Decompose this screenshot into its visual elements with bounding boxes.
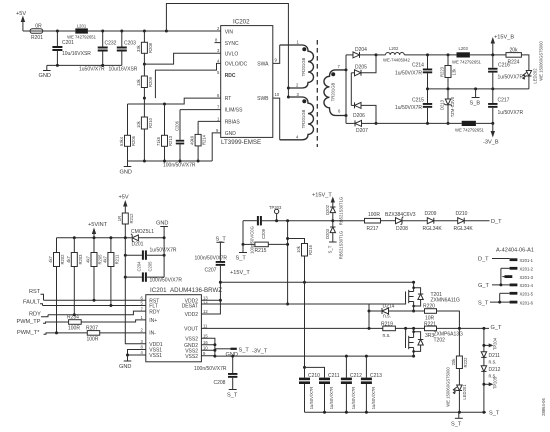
node S_T c207 (216, 237, 227, 262)
svg-text:100R: 100R (87, 337, 99, 343)
resistor R223 (440, 55, 457, 89)
svg-text:C213: C213 (370, 373, 382, 379)
svg-text:RBIAS: RBIAS (225, 120, 241, 126)
svg-text:A-42404-06-A1: A-42404-06-A1 (496, 248, 534, 254)
svg-text:D201: D201 (132, 242, 144, 248)
svg-text:LT3999-EMSE: LT3999-EMSE (221, 139, 261, 146)
svg-text:TP205: TP205 (492, 376, 497, 389)
svg-text:C206: C206 (174, 120, 179, 131)
svg-text:C203: C203 (124, 41, 136, 47)
node +15V_T top (312, 193, 335, 207)
svg-text:100n/50V/X7R: 100n/50V/X7R (194, 366, 227, 372)
wire desat row (201, 302, 405, 304)
svg-text:RST: RST (29, 289, 41, 295)
inductor L202 (376, 46, 428, 63)
transistor T201 (406, 282, 460, 311)
node RST (29, 289, 44, 300)
pin X201-1 (510, 258, 518, 261)
pin SYNC stub (215, 42, 221, 44)
svg-text:C208: C208 (214, 380, 226, 386)
transformer TR201 primary A (280, 40, 314, 89)
svg-text:VOUT: VOUT (184, 327, 198, 333)
svg-text:1u/50VX7R: 1u/50VX7R (498, 75, 524, 81)
diode D206 (351, 102, 377, 125)
wire IC202 GND pin (212, 133, 221, 161)
svg-text:TP204: TP204 (492, 337, 497, 350)
svg-text:n.s.: n.s. (383, 314, 391, 320)
ground S_T stub (451, 412, 463, 427)
wire top rail to L203 (426, 53, 457, 56)
svg-text:20k: 20k (451, 358, 456, 366)
svg-text:1u/50VX7R: 1u/50VX7R (498, 110, 524, 116)
resistor R208 (136, 30, 153, 65)
resistor R217 (333, 212, 381, 232)
wire center tap (287, 87, 290, 99)
svg-text:R220: R220 (423, 304, 435, 310)
svg-text:FAULT: FAULT (23, 300, 41, 306)
svg-text:X201-3: X201-3 (520, 275, 534, 280)
diode D201 zener (131, 229, 164, 248)
node +15V_B (491, 35, 515, 57)
svg-text:WE 742792651: WE 742792651 (67, 34, 97, 39)
svg-text:VSS2: VSS2 (185, 336, 198, 342)
diode D214 (369, 303, 395, 319)
svg-text:WE 150060GS75000: WE 150060GS75000 (445, 367, 450, 407)
wire secondary bottom terminal (345, 114, 348, 117)
svg-text:D209: D209 (425, 211, 437, 217)
resistor R207 (86, 326, 146, 343)
connector A-42404-06-A1 (478, 248, 534, 307)
svg-text:63k4: 63k4 (119, 136, 124, 146)
svg-text:SWA: SWA (257, 62, 269, 68)
wire VSS2 pins join (201, 338, 216, 357)
test point TP205 (484, 376, 497, 389)
op-amp IC201 (141, 287, 223, 362)
diode D203 (325, 221, 344, 260)
inductor L203 (452, 46, 506, 65)
svg-text:D_T: D_T (491, 219, 502, 225)
op-amp IC202 (215, 19, 280, 147)
diode D212 (481, 366, 500, 413)
svg-text:4k7: 4k7 (86, 255, 91, 262)
svg-text:1u/50V/X7R: 1u/50V/X7R (371, 387, 376, 410)
svg-text:S_T: S_T (227, 393, 238, 399)
svg-text:S_T: S_T (236, 256, 247, 262)
resistor R219 (381, 322, 425, 340)
svg-text:X201-4: X201-4 (520, 283, 534, 288)
capacitor C214 (395, 55, 432, 89)
svg-text:100R: 100R (368, 212, 380, 218)
svg-text:D204: D204 (355, 47, 367, 53)
wire VOUT G row (201, 327, 382, 330)
svg-text:C201: C201 (62, 40, 74, 46)
resistor R216 (288, 239, 313, 283)
pin X201-2 (501, 267, 510, 269)
wire vdd2 rail (219, 281, 415, 284)
svg-text:LED201: LED201 (462, 384, 467, 400)
svg-text:RT: RT (225, 96, 232, 102)
svg-text:10u/16VXSR: 10u/16VXSR (62, 51, 91, 57)
svg-text:R234: R234 (67, 315, 79, 321)
capacitor C205 (124, 261, 183, 283)
diode D207 (346, 120, 376, 134)
svg-text:D213: D213 (440, 99, 445, 110)
diode D208 zener (381, 212, 416, 232)
svg-text:+15V_T: +15V_T (230, 270, 250, 276)
svg-text:VDD2: VDD2 (185, 312, 199, 318)
svg-text:CMOZ5L1: CMOZ5L1 (131, 229, 154, 235)
svg-text:15: 15 (203, 333, 208, 338)
node PWM_T (17, 319, 69, 325)
svg-text:C217: C217 (498, 98, 510, 104)
node +5V (16, 11, 26, 31)
ground GND ic201-top (156, 221, 168, 240)
svg-text:10k: 10k (136, 120, 141, 128)
resistor R215 (243, 242, 288, 254)
svg-text:+5VINT: +5VINT (88, 222, 108, 228)
svg-text:1u50V/X7R: 1u50V/X7R (79, 67, 105, 73)
wire RST row (44, 299, 146, 302)
svg-text:S_T: S_T (328, 245, 333, 253)
svg-text:RGL34K: RGL34K (423, 226, 443, 232)
svg-text:C216: C216 (498, 63, 510, 69)
wire ILIM row (180, 109, 221, 111)
capacitor C215 (395, 89, 432, 124)
capacitor C204 (124, 248, 177, 272)
svg-text:C210: C210 (308, 373, 320, 379)
svg-text:GND: GND (225, 131, 237, 137)
svg-text:RDC: RDC (225, 73, 236, 79)
svg-text:100n/50V/X7R: 100n/50V/X7R (195, 256, 228, 262)
svg-text:D208: D208 (396, 226, 408, 232)
svg-text:13k: 13k (452, 68, 457, 76)
diode D204 (346, 47, 376, 58)
wire +5VINT rail (57, 236, 132, 239)
svg-text:C204: C204 (136, 261, 141, 272)
svg-text:D205: D205 (355, 65, 367, 71)
svg-text:D214: D214 (383, 303, 395, 309)
svg-text:D207: D207 (356, 128, 368, 134)
svg-text:SYNC: SYNC (225, 41, 239, 47)
wire vdd2 pins (201, 299, 222, 314)
svg-text:D212: D212 (489, 367, 501, 373)
svg-text:RDY: RDY (29, 312, 41, 318)
svg-text:10u/16VXSR: 10u/16VXSR (109, 67, 138, 73)
svg-text:R215: R215 (255, 248, 267, 254)
svg-text:BZX384C6V3: BZX384C6V3 (385, 212, 416, 218)
svg-text:D211: D211 (489, 353, 501, 359)
wire RT row (128, 98, 221, 104)
svg-text:R208: R208 (148, 42, 153, 53)
node -3V_B (483, 123, 499, 145)
svg-text:L201: L201 (77, 23, 87, 28)
resistor R202 (48, 238, 65, 333)
svg-text:S_T: S_T (216, 237, 227, 243)
svg-text:R223: R223 (440, 66, 445, 77)
wire mid rail S_B (426, 87, 529, 90)
svg-text:33k: 33k (136, 44, 141, 52)
svg-text:ILIM/SS: ILIM/SS (225, 108, 243, 114)
node +5VINT (88, 222, 108, 238)
LED LED201 (445, 367, 467, 413)
diode D209 (402, 211, 458, 232)
wire S_T bottom rail (305, 411, 500, 417)
test point TP204 (484, 337, 497, 350)
resistor R201 (30, 24, 43, 42)
inductor L201 (67, 23, 97, 39)
capacitor C201 (52, 30, 91, 66)
svg-text:28864-06: 28864-06 (541, 397, 546, 415)
svg-text:R202: R202 (60, 254, 65, 265)
svg-text:R213: R213 (168, 135, 173, 146)
svg-text:GND: GND (120, 170, 132, 176)
capacitor C209 (243, 216, 333, 254)
svg-text:GND: GND (39, 73, 51, 79)
wire UVLO tap (143, 53, 221, 65)
svg-text:+5V: +5V (119, 195, 129, 201)
svg-text:R201: R201 (31, 35, 43, 41)
svg-text:G_T: G_T (478, 283, 489, 289)
wire feedback to center tap (165, 4, 289, 89)
resistor R234 (67, 315, 146, 332)
wire secondary top terminal (345, 68, 348, 71)
pin X201-5 (500, 292, 510, 294)
svg-text:RB521S30T1G: RB521S30T1G (338, 231, 343, 259)
node S_B (470, 89, 481, 107)
svg-text:0R: 0R (35, 24, 42, 30)
svg-text:1u/50V/X7R: 1u/50V/X7R (329, 387, 334, 410)
wire desat branch vertical (286, 219, 289, 305)
resistor R220 (389, 304, 460, 329)
svg-text:TR201GB: TR201GB (331, 82, 336, 101)
svg-text:X201-5: X201-5 (520, 292, 534, 297)
svg-text:R210: R210 (148, 117, 153, 128)
svg-text:L202: L202 (389, 46, 399, 51)
svg-text:-3V_T: -3V_T (252, 349, 268, 355)
node +5V mid (119, 195, 129, 214)
svg-text:S_T: S_T (451, 422, 462, 428)
wire -3v rail (215, 355, 415, 358)
svg-text:WE 742792651: WE 742792651 (452, 60, 482, 65)
resistor R212 (117, 213, 134, 238)
svg-text:T202: T202 (434, 338, 446, 344)
resistor R210 (136, 98, 153, 161)
ground GND divider (120, 161, 132, 176)
wire SWA (273, 45, 280, 63)
transistor T202 (404, 327, 463, 356)
capacitor C203 (109, 30, 138, 73)
capacitor C207 (195, 256, 228, 301)
svg-text:G_T: G_T (491, 325, 502, 331)
svg-text:100R: 100R (68, 326, 80, 332)
wire vdd1 col (125, 238, 146, 344)
resistor R224 (506, 48, 529, 71)
resistor R222 (451, 328, 468, 385)
svg-text:R219: R219 (381, 322, 393, 328)
svg-text:ADUM4136-BRWZ: ADUM4136-BRWZ (170, 287, 222, 294)
svg-text:C211: C211 (328, 373, 340, 379)
wire D211 col (482, 328, 485, 351)
svg-text:1u/50V/X7R: 1u/50V/X7R (150, 248, 177, 254)
pin X201-3 (502, 276, 504, 278)
svg-text:IN+: IN+ (149, 318, 157, 324)
svg-text:C215: C215 (412, 98, 424, 104)
svg-text:TR201GB: TR201GB (301, 109, 306, 128)
node PWM_T* (17, 330, 87, 336)
wire VSS1 pins (126, 350, 146, 357)
svg-text:R209: R209 (148, 76, 153, 87)
svg-text:C209: C209 (261, 228, 266, 239)
svg-text:R207: R207 (86, 326, 98, 332)
resistor R211 (102, 238, 119, 306)
svg-text:C207: C207 (205, 268, 217, 274)
diode D205 (351, 53, 377, 75)
node FAULT (23, 300, 43, 306)
svg-text:S_T: S_T (489, 411, 500, 417)
svg-text:C212: C212 (350, 373, 362, 379)
svg-text:LED202: LED202 (533, 68, 538, 84)
svg-text:C232: C232 (105, 41, 117, 47)
svg-text:11: 11 (203, 324, 208, 329)
svg-text:R217: R217 (367, 226, 379, 232)
svg-text:R221: R221 (424, 322, 436, 328)
svg-text:R214: R214 (202, 134, 207, 145)
svg-text:PWM_T*: PWM_T* (17, 330, 40, 336)
LED LED202 (523, 41, 544, 89)
svg-text:PWM_TP: PWM_TP (17, 319, 41, 325)
svg-text:-3V_B: -3V_B (483, 140, 499, 146)
svg-text:X201-6: X201-6 (520, 300, 534, 305)
svg-text:+15V_B: +15V_B (494, 35, 514, 41)
svg-text:1u/50V/X7R: 1u/50V/X7R (351, 387, 356, 410)
svg-text:X201-2: X201-2 (520, 267, 534, 272)
capacitor C212 (341, 356, 362, 412)
capacitor C211 (305, 367, 340, 412)
svg-text:D206: D206 (353, 113, 365, 119)
svg-text:1R: 1R (117, 216, 122, 221)
diode D213 zener (440, 89, 455, 125)
svg-text:IC202: IC202 (233, 19, 250, 26)
svg-text:R212: R212 (129, 213, 134, 224)
svg-text:R216: R216 (308, 244, 313, 255)
inductor L204 (455, 121, 485, 133)
svg-text:C214: C214 (412, 63, 424, 69)
ground GND ic201 left (119, 355, 131, 370)
transformer TR201 primary B (280, 92, 314, 140)
resistor R214 (190, 121, 207, 161)
capacitor C210 (299, 282, 320, 412)
resistor R221 (424, 322, 489, 340)
wire bottom rail (376, 122, 494, 125)
svg-text:13k: 13k (136, 78, 141, 86)
resistor R213 (156, 103, 173, 162)
svg-text:IC201: IC201 (150, 287, 167, 294)
wire cap ground bus (47, 64, 122, 66)
resistor R205 (86, 238, 103, 300)
svg-text:13: 13 (203, 295, 208, 300)
svg-text:SWB: SWB (257, 96, 269, 102)
capacitor C208 (194, 356, 238, 398)
svg-text:49k9: 49k9 (190, 135, 195, 145)
svg-text:UVLO: UVLO (225, 51, 239, 57)
svg-text:+15V_T: +15V_T (312, 193, 332, 199)
svg-text:VSS1: VSS1 (149, 353, 162, 359)
wire rectifier bus B (350, 73, 352, 106)
wire FAULT row (43, 304, 146, 307)
diode D211 (481, 352, 500, 366)
svg-text:TP203: TP203 (269, 205, 282, 210)
svg-text:R206: R206 (131, 135, 136, 146)
wire OVLO tap (143, 63, 221, 99)
svg-text:TZM-C3V0: TZM-C3V0 (450, 96, 455, 117)
wire SWB (273, 98, 280, 140)
wire gnd col (163, 238, 165, 277)
wire divider ground bus (128, 160, 213, 163)
diode D210 (454, 211, 490, 232)
svg-text:RDY: RDY (149, 309, 160, 315)
svg-text:L203: L203 (459, 46, 469, 51)
svg-text:D203: D203 (325, 228, 330, 239)
svg-text:IN-: IN- (149, 331, 156, 337)
svg-text:+5V: +5V (16, 11, 26, 17)
svg-text:12: 12 (203, 309, 208, 314)
svg-text:n.s.: n.s. (489, 360, 497, 366)
svg-text:R222: R222 (463, 357, 468, 368)
test point TP203 (269, 205, 282, 222)
svg-text:10k: 10k (296, 245, 301, 253)
diode D202 (325, 197, 344, 225)
wire desat to gate node (368, 304, 371, 328)
svg-text:WE-74405042: WE-74405042 (383, 58, 410, 63)
svg-text:GND: GND (119, 364, 131, 370)
wire rectifier bus A (345, 55, 347, 124)
resistor R206 (119, 104, 136, 161)
node S_T sense (236, 221, 248, 262)
node S_T ic201 (215, 348, 249, 354)
svg-text:20k: 20k (510, 48, 519, 54)
svg-text:TR201GB: TR201GB (301, 57, 306, 76)
svg-text:C205: C205 (147, 261, 152, 272)
wire RBIAS row (198, 120, 221, 122)
svg-text:D_T: D_T (478, 257, 489, 263)
resistor R209 (136, 64, 153, 98)
ground GND top-left (39, 65, 51, 79)
resistor R203 (66, 238, 83, 315)
svg-text:100n/50V/X7R: 100n/50V/X7R (163, 163, 196, 169)
svg-text:1u/50V/X7R: 1u/50V/X7R (395, 71, 422, 77)
svg-text:S_T: S_T (239, 348, 250, 354)
svg-text:4k7: 4k7 (102, 255, 107, 262)
svg-text:OVLO/DC: OVLO/DC (225, 62, 248, 68)
svg-text:4k7: 4k7 (48, 255, 53, 262)
svg-text:1u/50V/X7R: 1u/50V/X7R (395, 105, 422, 111)
svg-text:DESAT: DESAT (182, 304, 198, 310)
svg-text:100n/50V/X7R: 100n/50V/X7R (150, 277, 183, 283)
svg-text:GND: GND (156, 221, 168, 227)
capacitor C216 (488, 55, 523, 89)
capacitor C213 (361, 356, 382, 412)
svg-text:14: 14 (203, 301, 208, 306)
node RDY (29, 312, 48, 318)
svg-text:S_T: S_T (478, 300, 489, 306)
svg-text:WE 742792651: WE 742792651 (455, 128, 485, 133)
svg-text:WE 150060GS75000: WE 150060GS75000 (539, 41, 544, 81)
svg-text:VIN: VIN (225, 30, 234, 36)
svg-text:1u/50V/X7R: 1u/50V/X7R (309, 387, 314, 410)
capacitor C217 (488, 89, 523, 124)
svg-text:VSS2: VSS2 (185, 354, 198, 360)
svg-text:S_B: S_B (470, 101, 481, 107)
